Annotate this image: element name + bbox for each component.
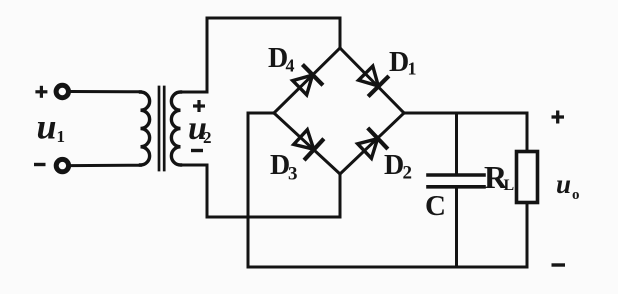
label - (input bottom) [34,163,46,166]
svg-text:2: 2 [203,128,212,147]
wire bridge edge D4 (left node to top node) [274,48,340,113]
wire bridge edge D1 (top node to right node) [340,48,404,113]
diode D1 [357,64,388,95]
wire primary bottom lead [72,164,141,167]
svg-text:D: D [389,47,409,78]
wire secondary bottom lead to bridge bottom node [181,165,341,217]
label + (output) [552,111,565,124]
svg-text:u: u [556,169,571,199]
diode D3 [292,128,322,159]
transformer T secondary winding [171,92,180,165]
capacitor C top lead [455,113,458,173]
wire RL bottom lead [526,204,529,267]
label - (output) [552,263,566,266]
svg-text:o: o [572,187,580,203]
wire left node to minus rail [248,113,274,267]
resistor RL body [517,152,538,203]
terminal - input (circle) [56,159,68,171]
transformer T core [158,87,161,170]
svg-text:3: 3 [288,164,298,185]
svg-text:4: 4 [286,56,295,76]
label + (input top) [35,86,47,98]
wire bridge edge D2 (bottom node to right node) [340,113,404,174]
label + (secondary top) [193,100,205,112]
svg-text:2: 2 [403,163,413,184]
capacitor C plates [428,173,484,177]
transformer T primary winding [141,92,150,165]
svg-text:u: u [37,107,57,147]
diode D4 [291,66,322,97]
wire right node to RL branch [404,113,527,150]
wire secondary top lead to top rail [181,18,341,92]
wire primary top lead [72,90,141,93]
svg-text:1: 1 [57,127,66,146]
wire bottom rail [248,266,527,269]
svg-text:L: L [504,177,515,194]
label - (secondary bottom) [191,149,203,152]
svg-text:C: C [425,190,446,222]
capacitor C bottom lead [455,189,458,268]
wire bridge edge D3 (left node to bottom node) [274,113,340,174]
diode D2 [356,129,386,160]
svg-text:D: D [384,150,404,181]
svg-text:1: 1 [408,59,417,79]
terminal + input (circle) [56,85,68,97]
